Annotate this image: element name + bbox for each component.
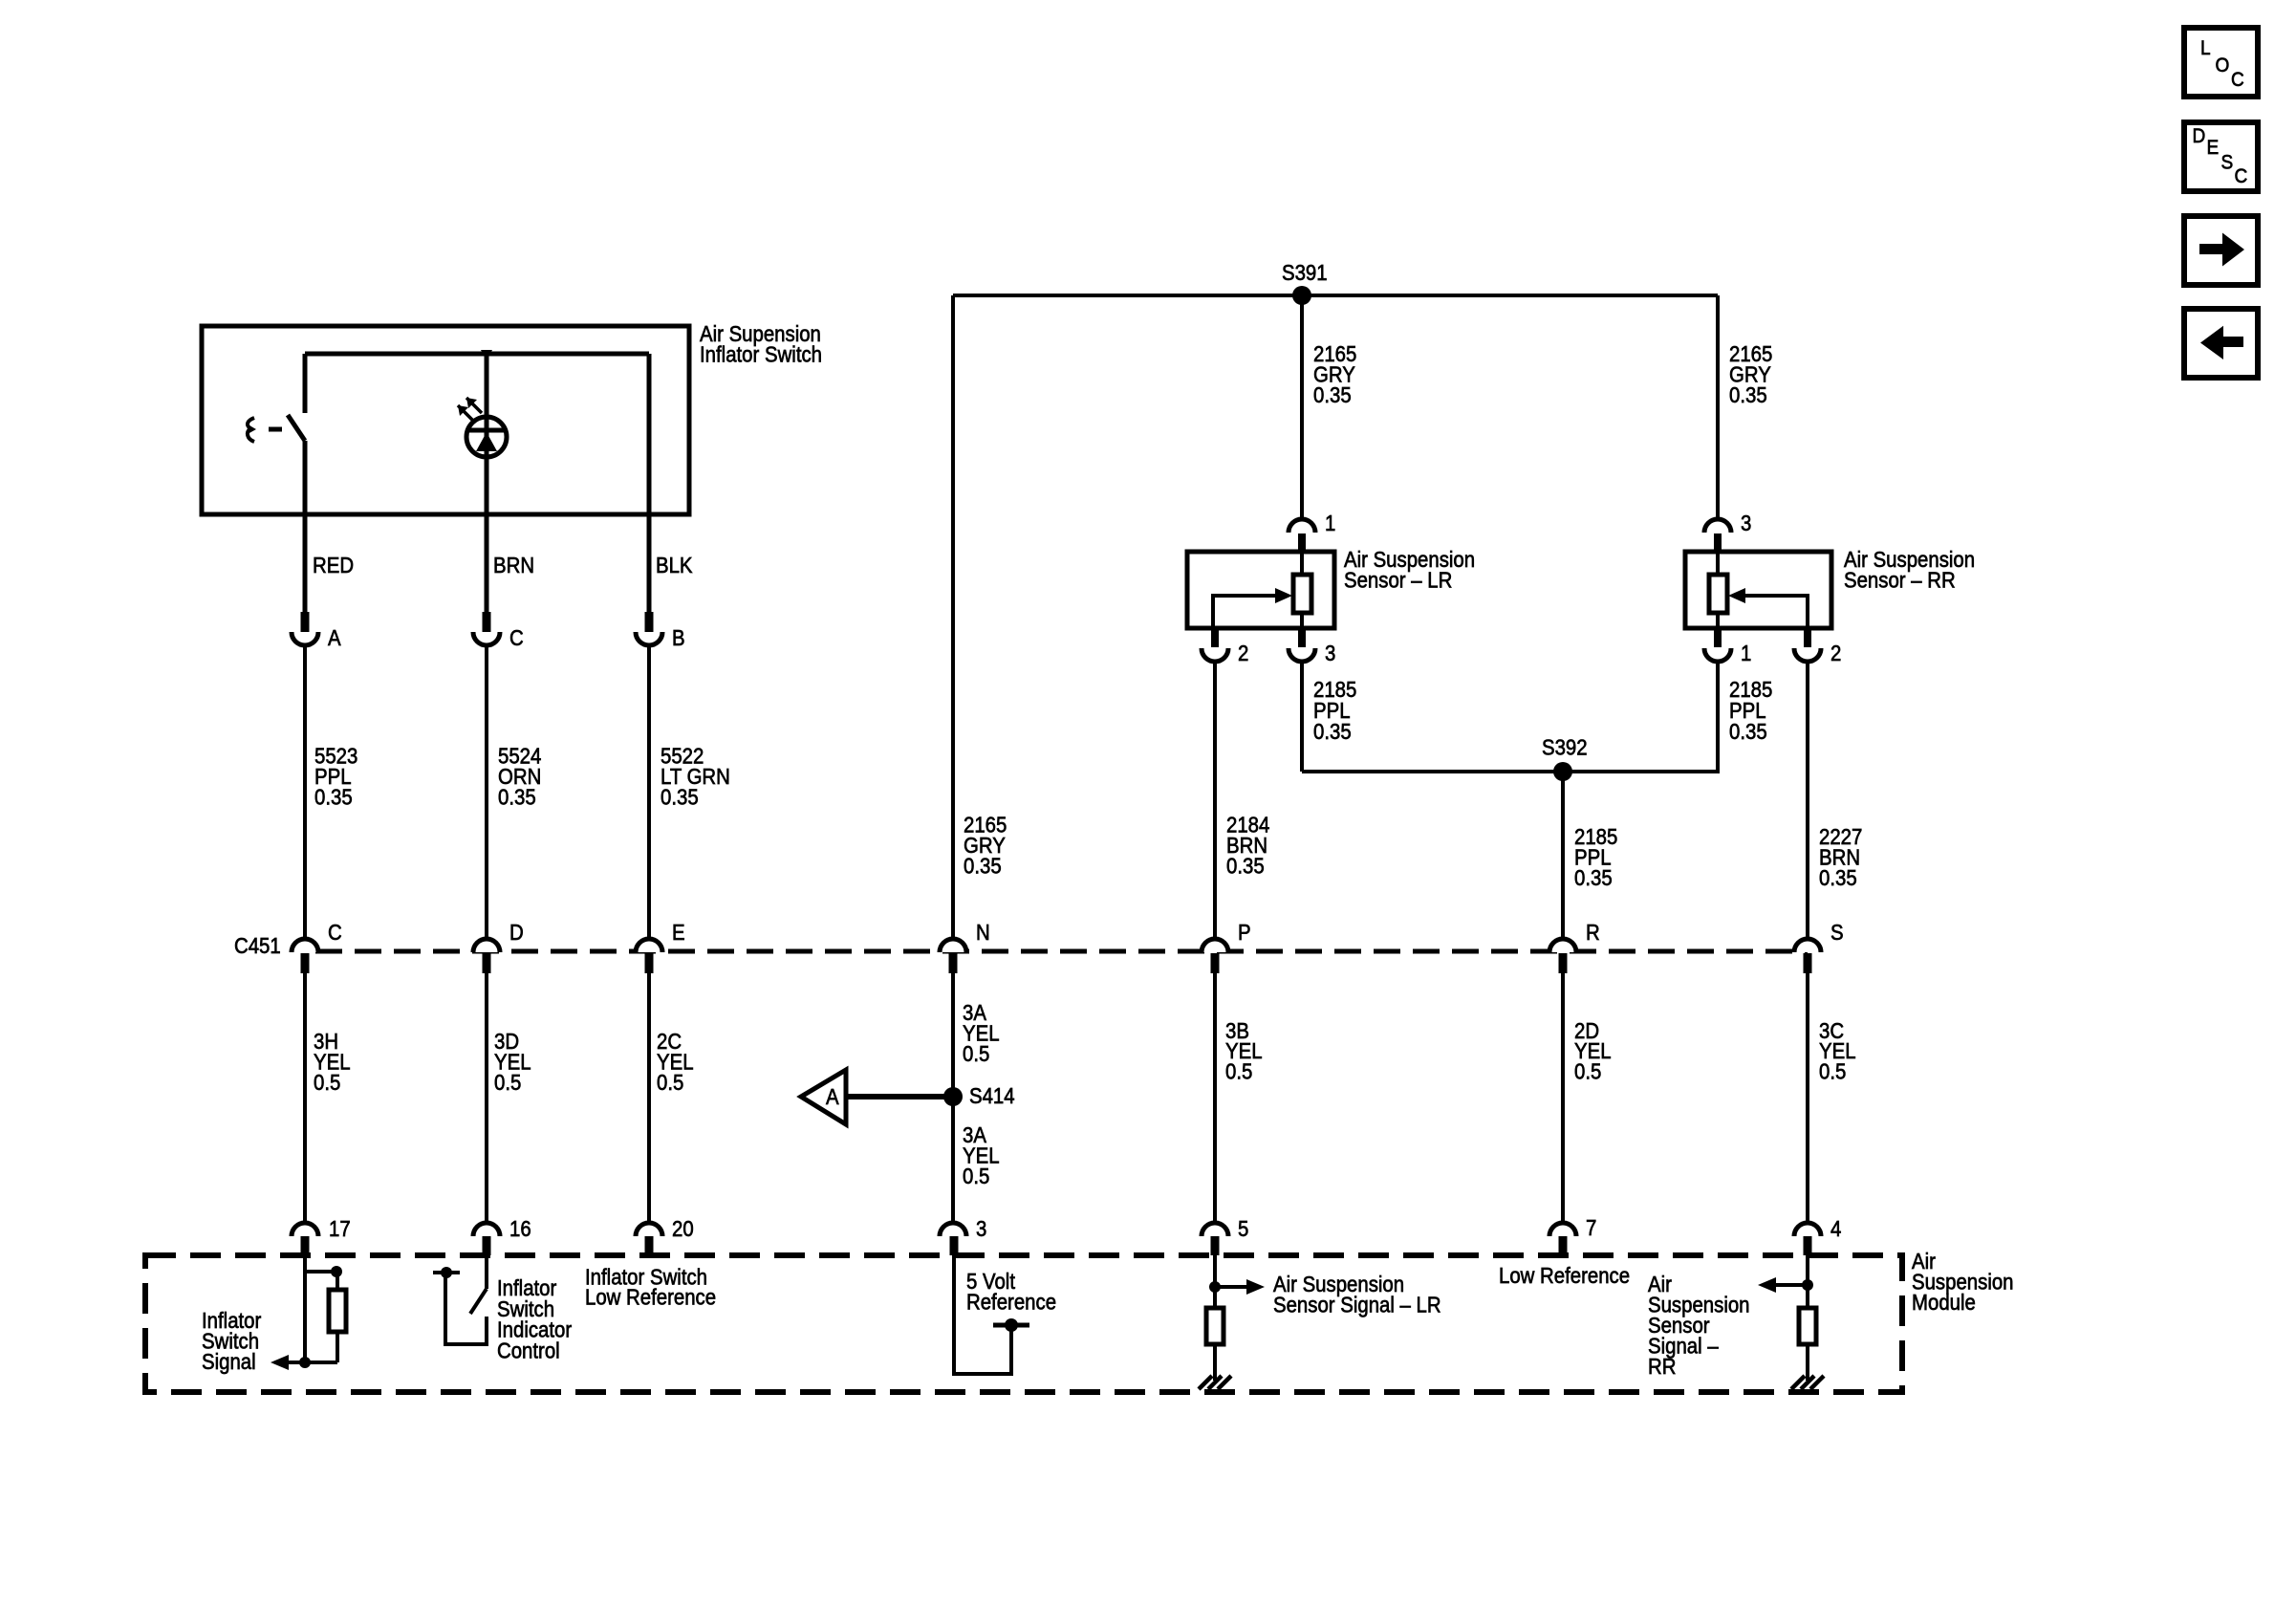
wire: top GRY bus from N column to RR sensor: [953, 294, 1718, 297]
wire: C451 D to module pin 16: [485, 973, 488, 1223]
svg-text:E: E: [2207, 137, 2220, 159]
connector C451 dashed row line: [315, 949, 1808, 954]
svg-text:N: N: [976, 920, 990, 945]
sensor RR pin 3 bar: [1714, 533, 1722, 552]
svg-text:E: E: [672, 920, 685, 945]
switch actuator dashed link: [269, 427, 282, 432]
connector C451 R dome: [1549, 939, 1576, 952]
module pin 17 dome: [292, 1223, 318, 1236]
svg-text:16: 16: [509, 1216, 531, 1241]
icon box arrow left: [2184, 309, 2258, 378]
sensor LR pin 2 bar: [1211, 628, 1219, 647]
5 volt reference T-bar: [993, 1323, 1029, 1328]
C451 N pin bar: [949, 953, 958, 973]
switch actuator curly symbol: [248, 418, 254, 442]
svg-text:C: C: [2235, 165, 2248, 187]
C451 C pin bar: [301, 953, 310, 973]
svg-text:Air SuspensionSensor – RR: Air SuspensionSensor – RR: [1844, 547, 1975, 593]
off-page reference triangle A: [801, 1070, 846, 1124]
module pin 3 dome: [940, 1223, 966, 1236]
svg-text:2227BRN0.35: 2227BRN0.35: [1819, 824, 1862, 890]
svg-text:A: A: [328, 625, 341, 650]
svg-text:2165GRY0.35: 2165GRY0.35: [1313, 341, 1356, 407]
node S391: [1292, 286, 1311, 305]
LED D1 circle: [466, 417, 507, 457]
C451 R pin bar: [1559, 953, 1568, 973]
LED D1 cathode bar: [466, 428, 507, 433]
wire: S391 to RR sensor pin 3: [1716, 295, 1720, 518]
wire: C451 C to module pin 17: [303, 973, 307, 1223]
wire: RR pin 2 down to C451 S: [1806, 662, 1809, 939]
junction dot pin 5 arrow: [1209, 1281, 1221, 1293]
module pin 3 bar: [950, 1236, 959, 1255]
sensor RR pin 3 dome: [1704, 519, 1731, 533]
arrowhead inflator switch signal: [271, 1355, 289, 1370]
icon box LOC: [2184, 28, 2258, 97]
LED emission arrowheads: [458, 398, 477, 416]
svg-text:Inflator SwitchLow Reference: Inflator SwitchLow Reference: [585, 1264, 716, 1310]
LED D1 emission arrow lines: [458, 398, 482, 421]
svg-text:2165GRY0.35: 2165GRY0.35: [964, 812, 1007, 878]
svg-text:S: S: [1830, 920, 1844, 945]
svg-text:7: 7: [1586, 1215, 1596, 1240]
svg-text:2184BRN0.35: 2184BRN0.35: [1226, 812, 1269, 878]
wire: indicator driver contact tick: [433, 1271, 460, 1274]
svg-text:S392: S392: [1542, 734, 1588, 759]
sensor LR pin 3 cup: [1289, 648, 1315, 662]
svg-text:D: D: [2193, 125, 2206, 147]
sensor RR pin 2 cup: [1794, 648, 1821, 662]
svg-text:BLK: BLK: [656, 553, 693, 577]
switch Q1 blade inflator indicator driver: [470, 1289, 487, 1314]
connector C451 S dome: [1794, 939, 1821, 952]
wire: resistor R1 bottom to signal line: [336, 1332, 339, 1362]
svg-text:D: D: [509, 920, 524, 945]
svg-text:S414: S414: [969, 1083, 1015, 1108]
wire: triangle A to S414: [846, 1094, 953, 1099]
wire: pin 16 internal stub: [485, 1255, 488, 1289]
switch S1 blade: [288, 415, 305, 441]
svg-text:RED: RED: [313, 553, 354, 577]
connector C451 E dome: [636, 939, 662, 952]
svg-text:2165GRY0.35: 2165GRY0.35: [1729, 341, 1772, 407]
svg-text:3: 3: [1741, 511, 1751, 535]
module pin 17 bar: [301, 1236, 310, 1255]
svg-text:20: 20: [672, 1216, 694, 1241]
connector terminal A cup: [292, 632, 318, 645]
wire: indicator driver contact loop: [445, 1273, 487, 1344]
sensor LR pin 3 bar: [1298, 628, 1306, 647]
svg-text:L: L: [2200, 37, 2211, 59]
svg-text:R: R: [1586, 920, 1600, 945]
wire: pin 4 internal drop: [1806, 1255, 1809, 1381]
wire: BRN lead connector C to C451 D: [485, 644, 488, 939]
module pin 7 dome: [1549, 1223, 1576, 1236]
C451 P pin bar: [1211, 953, 1220, 973]
wire: pin 5 internal drop: [1213, 1255, 1217, 1381]
icon arrow right glyph: [2199, 233, 2244, 267]
C451 S pin bar: [1804, 953, 1812, 973]
wire: RR pot top lead: [1716, 552, 1720, 575]
connector C451 D dome: [473, 939, 500, 952]
junction dot indicator control contact: [441, 1267, 452, 1278]
module pin 16 dome: [473, 1223, 500, 1236]
module pin 5 dome: [1202, 1223, 1228, 1236]
wire: RR pot bottom lead: [1716, 613, 1720, 628]
junction dot pin 4 arrow: [1802, 1279, 1813, 1291]
svg-text:2: 2: [1238, 641, 1248, 665]
svg-text:4: 4: [1830, 1216, 1841, 1241]
wire: LED branch inside switch box: [485, 354, 489, 612]
Air Suspension Sensor RR box: [1685, 552, 1831, 628]
C451 E pin bar: [645, 953, 654, 973]
wire: inflator switch signal line with arrow: [288, 1361, 337, 1364]
wire: LR wiper arm: [1213, 596, 1275, 628]
svg-text:P: P: [1238, 920, 1251, 945]
pin bar above connector C: [483, 612, 491, 632]
wire: C451 P to module pin 5: [1213, 973, 1217, 1223]
connector C451 P dome: [1202, 939, 1228, 952]
connector terminal B cup: [636, 632, 662, 645]
C451 D pin bar: [483, 953, 491, 973]
node S392: [1553, 762, 1572, 781]
sensor RR pin 2 bar: [1804, 628, 1811, 647]
module pin 7 bar: [1559, 1236, 1568, 1255]
resistor R1 inflator switch signal pull-up: [329, 1290, 346, 1332]
svg-text:BRN: BRN: [493, 553, 534, 577]
junction dot at resistor R1 branch: [331, 1266, 342, 1277]
svg-text:S: S: [2221, 152, 2234, 174]
wire: pin 5 signal arrow line: [1215, 1285, 1248, 1289]
wire: BLK lead connector B to C451 E: [647, 644, 651, 939]
wire: LR pin 2 down to C451 P: [1213, 662, 1217, 939]
switch actuator arrow tip: [248, 425, 256, 434]
sensor LR pin 2 cup: [1202, 648, 1228, 662]
arrowhead sensor signal RR: [1758, 1277, 1776, 1293]
pin bar above connector B: [645, 612, 654, 632]
wire: pin 3 internal 5 volt loop: [954, 1255, 1011, 1374]
wire: inner bus of inflator switch: [305, 352, 649, 357]
module pin 5 bar: [1211, 1236, 1220, 1255]
wire: below switch blade to connector A: [303, 441, 308, 612]
svg-text:C451: C451: [234, 933, 281, 958]
svg-text:3: 3: [1325, 641, 1335, 665]
connector C451 C dome: [292, 939, 318, 952]
svg-text:1: 1: [1741, 641, 1751, 665]
junction dot on signal line pin 17: [299, 1357, 311, 1368]
module pin 20 dome: [636, 1223, 662, 1236]
pin bar above connector A: [301, 612, 310, 632]
wire: S392 down to C451 R: [1561, 772, 1565, 939]
sensor LR pin 1 bar: [1298, 533, 1306, 552]
Air Suspension Inflator Switch box: [202, 326, 689, 514]
sensor RR pin 1 bar: [1714, 628, 1722, 647]
potentiometer LR element: [1293, 575, 1311, 613]
svg-text:C: C: [2231, 69, 2244, 91]
icon box DESC: [2184, 122, 2258, 191]
svg-text:A: A: [826, 1084, 839, 1109]
module pin 20 bar: [645, 1236, 654, 1255]
Air Suspension Sensor LR box: [1187, 552, 1334, 628]
svg-text:Air SupensionInflator Switch: Air SupensionInflator Switch: [700, 321, 822, 367]
svg-text:Low Reference: Low Reference: [1499, 1263, 1630, 1288]
module pin 4 bar: [1804, 1236, 1812, 1255]
svg-text:2: 2: [1830, 641, 1841, 665]
resistor R2 sensor LR load: [1206, 1308, 1224, 1344]
potentiometer RR element: [1709, 575, 1727, 613]
junction dot 5 volt T-bar: [1005, 1318, 1018, 1332]
wire: LR pot bottom lead: [1300, 613, 1304, 628]
svg-text:5524ORN0.35: 5524ORN0.35: [498, 743, 541, 809]
wire: S391 to LR sensor pin 1: [1300, 295, 1304, 518]
wire: pin 4 signal arrow line: [1774, 1283, 1808, 1287]
module pin 4 dome: [1794, 1223, 1821, 1236]
node S414: [943, 1087, 963, 1106]
switch S1 stub: [303, 354, 308, 413]
wire: RR wiper arm: [1745, 596, 1808, 628]
svg-text:C: C: [328, 920, 342, 945]
svg-text:1: 1: [1325, 511, 1335, 535]
ground G2 under resistor R3: [1791, 1376, 1824, 1389]
arrowhead sensor signal LR: [1246, 1279, 1265, 1295]
svg-text:3: 3: [976, 1216, 986, 1241]
wire: C451 E to module pin 20: [647, 973, 651, 1223]
wire: C451 R to module pin 7: [1561, 973, 1565, 1223]
connector terminal C cup: [473, 632, 500, 645]
wire: LR pin 3 down to S392: [1300, 662, 1304, 772]
sensor LR pin 1 dome: [1289, 519, 1315, 533]
wire: LR pot top lead: [1300, 552, 1304, 575]
resistor R3 sensor RR load: [1799, 1308, 1816, 1344]
svg-text:C: C: [509, 625, 524, 650]
LED D1 triangle: [476, 432, 497, 451]
wire: S392 bus: [1302, 662, 1718, 772]
wire: BLK branch inside switch box: [647, 354, 652, 612]
svg-text:O: O: [2216, 54, 2230, 76]
wire: pin 17 branch to resistor R1: [305, 1272, 337, 1290]
wire: pin 17 internal drop: [303, 1255, 307, 1362]
wire: RED lead connector A to C451 C: [303, 644, 307, 939]
svg-text:B: B: [672, 625, 685, 650]
junction on inflator switch inner bus: [481, 350, 492, 360]
Air Suspension Module dashed box: [145, 1255, 1902, 1392]
svg-text:S391: S391: [1282, 260, 1328, 285]
ground G1 under resistor R2: [1199, 1376, 1231, 1389]
sensor RR wiper arrowhead: [1728, 588, 1745, 603]
wire: N column 5V reference down to C451 N: [951, 295, 955, 939]
wire: C451 S to module pin 4: [1806, 973, 1809, 1223]
svg-text:InflatorSwitchSignal: InflatorSwitchSignal: [202, 1308, 261, 1374]
icon arrow left glyph: [2200, 326, 2243, 359]
svg-text:17: 17: [329, 1216, 351, 1241]
connector C451 N dome: [940, 939, 966, 952]
module pin 16 bar: [483, 1236, 491, 1255]
sensor RR pin 1 cup: [1704, 648, 1731, 662]
icon box arrow right: [2184, 216, 2258, 285]
svg-text:5: 5: [1238, 1216, 1248, 1241]
wire: C451 N through S414 to module pin 3: [951, 973, 955, 1223]
sensor LR wiper arrowhead: [1275, 588, 1292, 603]
